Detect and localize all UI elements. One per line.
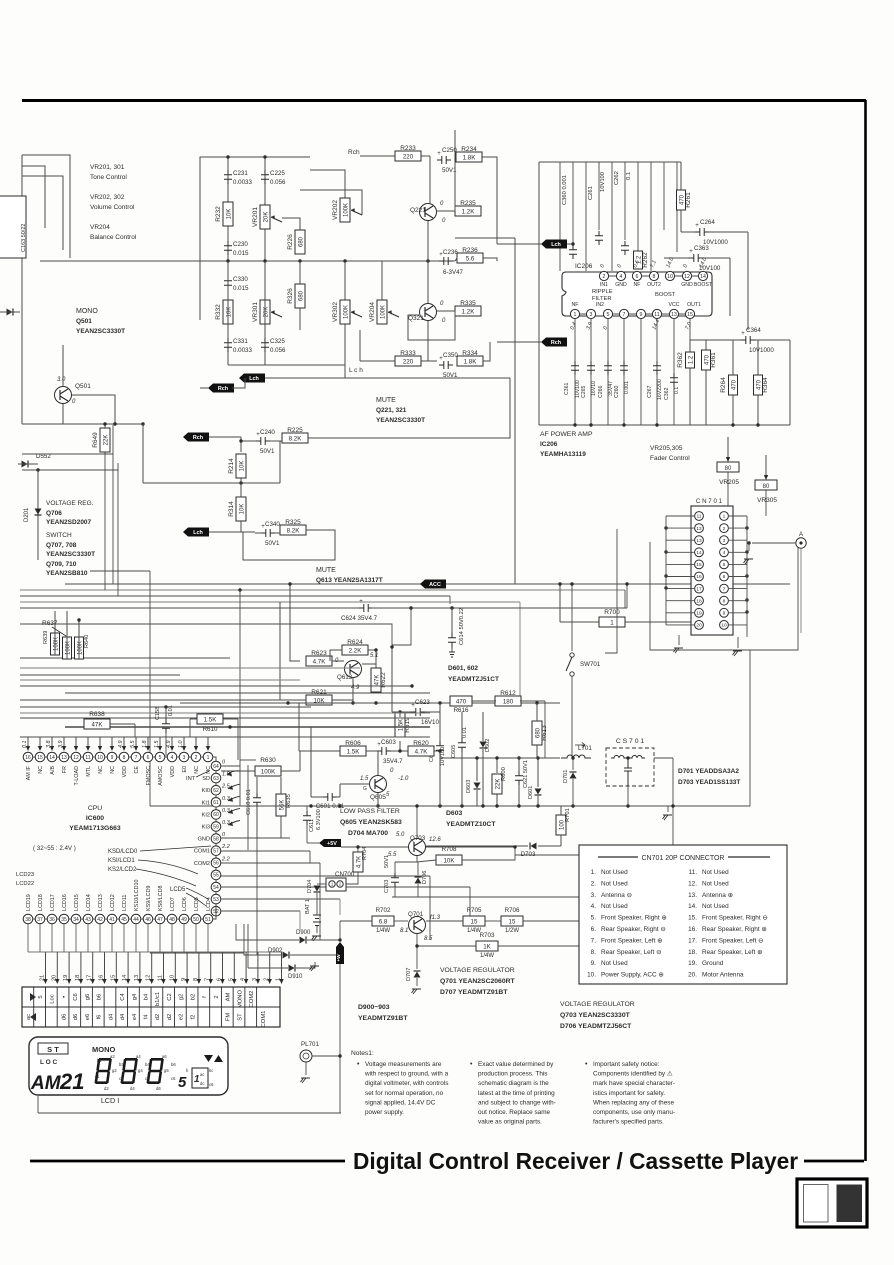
svg-text:2: 2 — [214, 995, 220, 998]
potentiometer VR201 20K — [252, 205, 282, 229]
CPU right pin chain — [194, 760, 231, 917]
wire R261 link — [680, 162, 682, 190]
svg-text:1/4W: 1/4W — [376, 928, 390, 934]
svg-text:62: 62 — [213, 788, 219, 794]
LCD1 display outline — [29, 1037, 228, 1095]
label VR205 305 Fader Control — [650, 445, 690, 462]
svg-text:4.7K: 4.7K — [415, 749, 429, 756]
svg-text:C N 7 0 1: C N 7 0 1 — [696, 498, 723, 505]
svg-text:220: 220 — [403, 359, 414, 366]
svg-text:42: 42 — [97, 917, 103, 923]
wire chain right stubs — [221, 760, 256, 850]
wire Q321 collector — [427, 321, 429, 361]
svg-text:KSD/LCD0: KSD/LCD0 — [108, 849, 138, 855]
wire COM1 link — [221, 850, 310, 852]
wire cn701 grounds — [674, 635, 743, 656]
svg-text:c6: c6 — [209, 1082, 214, 1087]
svg-text:54: 54 — [213, 885, 219, 891]
resistor R649 22K — [92, 428, 110, 452]
svg-text:180: 180 — [503, 699, 514, 706]
svg-text:IC600: IC600 — [86, 815, 104, 822]
svg-text:D704: D704 — [307, 880, 313, 893]
svg-text:43: 43 — [85, 917, 91, 923]
svg-text:11: 11 — [654, 312, 659, 318]
svg-text:4: 4 — [171, 755, 174, 761]
svg-text:e6: e6 — [85, 1014, 91, 1020]
wire main low bus y806 — [150, 805, 673, 807]
CN701 right pins 1-10 — [720, 512, 729, 630]
svg-text:21: 21 — [40, 975, 46, 981]
wire ACC bus — [65, 583, 790, 585]
svg-text:R334: R334 — [462, 350, 478, 357]
svg-text:VR202, 302: VR202, 302 — [90, 194, 125, 201]
capacitor C611 6.3V100 — [303, 806, 322, 843]
svg-text:LCD4: LCD4 — [206, 897, 212, 911]
svg-text:Rear Speaker, Left ⊖: Rear Speaker, Left ⊖ — [601, 949, 661, 956]
wire bus group mid2 — [20, 595, 450, 597]
label INT — [186, 771, 209, 782]
svg-text:D706: D706 — [422, 871, 428, 884]
inductor L701 — [561, 743, 592, 759]
svg-text:0.0033: 0.0033 — [233, 179, 252, 186]
resistor R236 5.6 — [457, 247, 483, 263]
svg-text:100K: 100K — [344, 305, 350, 319]
op-amp IC206 body — [562, 263, 712, 316]
wire C363 rail — [664, 257, 689, 259]
wire r264/r364 — [732, 340, 734, 375]
left edge connector box — [0, 196, 26, 258]
svg-text:OUT2: OUT2 — [647, 282, 661, 288]
transistor Q605 FET — [360, 768, 409, 801]
svg-text:Q701 YEAN2SC2060RT: Q701 YEAN2SC2060RT — [440, 978, 516, 985]
capacitor C604 10V100 — [429, 703, 446, 766]
svg-text:PL701: PL701 — [301, 1041, 319, 1048]
svg-text:60: 60 — [213, 812, 219, 818]
battery BAT1 — [305, 893, 321, 941]
svg-text:0.1: 0.1 — [22, 741, 28, 749]
svg-text:Front Speaker, Left ⊕: Front Speaker, Left ⊕ — [601, 937, 662, 944]
net tag +5V — [319, 839, 341, 847]
svg-text:SD: SD — [202, 776, 210, 782]
capacitor C240 — [256, 429, 275, 455]
svg-text:R613: R613 — [541, 725, 548, 741]
svg-text:C330: C330 — [233, 276, 248, 283]
svg-text:Q501: Q501 — [76, 318, 92, 325]
transistor Q703 — [388, 832, 441, 858]
note column 1 — [357, 1061, 449, 1116]
svg-text:Power Supply, ACC ⊕: Power Supply, ACC ⊕ — [601, 972, 664, 979]
svg-text:YEAM1713G663: YEAM1713G663 — [69, 825, 121, 832]
svg-text:e4: e4 — [132, 1013, 138, 1020]
svg-text:IN2: IN2 — [596, 302, 604, 308]
svg-text:D902: D902 — [268, 948, 283, 954]
svg-text:Rear Speaker, Right ⊖: Rear Speaker, Right ⊖ — [601, 926, 666, 933]
potentiometer VR302 100K — [332, 300, 362, 324]
svg-text:41: 41 — [109, 917, 115, 923]
svg-text:4: 4 — [723, 550, 726, 556]
svg-text:C360 0.001: C360 0.001 — [562, 175, 568, 205]
svg-text:g2: g2 — [179, 994, 185, 1000]
svg-text:36: 36 — [49, 917, 55, 923]
svg-text:1.8: 1.8 — [142, 741, 148, 749]
net tag Lch mid — [183, 528, 209, 537]
svg-text:AM: AM — [30, 1073, 62, 1094]
svg-text:470: 470 — [732, 379, 738, 390]
transistor Q221 — [410, 201, 446, 224]
svg-text:1: 1 — [574, 312, 577, 318]
svg-text:c6: c6 — [171, 1076, 176, 1081]
svg-text:Antenna ⊕: Antenna ⊕ — [702, 892, 733, 899]
svg-text:VCC: VCC — [669, 302, 680, 308]
wire r705 r706 — [426, 920, 463, 922]
svg-text:VR202: VR202 — [332, 200, 339, 220]
svg-text:1.5: 1.5 — [154, 740, 160, 748]
svg-text:10K: 10K — [313, 698, 325, 705]
svg-text:AF POWER AMP: AF POWER AMP — [540, 431, 593, 438]
svg-text:7: 7 — [623, 312, 626, 318]
svg-text:C158: C158 — [155, 707, 161, 720]
svg-text:D910: D910 — [288, 974, 303, 980]
svg-text:C364: C364 — [746, 327, 761, 334]
svg-text:15: 15 — [110, 975, 116, 981]
svg-text:KS8/LCD8: KS8/LCD8 — [158, 886, 164, 911]
svg-text:R638: R638 — [89, 711, 105, 718]
svg-text:+: + — [689, 249, 693, 255]
resistor R610 1.5K — [190, 714, 238, 760]
svg-text:b4: b4 — [144, 993, 150, 1000]
svg-text:MUTE: MUTE — [376, 397, 396, 404]
transistor Q613 — [335, 653, 378, 691]
svg-text:16: 16 — [25, 755, 31, 761]
svg-text:g2: g2 — [112, 1068, 117, 1073]
wire acc to sw701 — [571, 584, 573, 651]
wire r314 — [240, 478, 242, 497]
wire bottom tone rail — [228, 324, 345, 365]
wire R649 — [104, 424, 106, 428]
diode D902 — [257, 948, 342, 959]
svg-text:Front Speaker, Right ⊖: Front Speaker, Right ⊖ — [702, 915, 768, 922]
svg-text:D703 YEAD1SS133T: D703 YEAD1SS133T — [678, 779, 740, 786]
svg-text:C618 0.01: C618 0.01 — [246, 789, 252, 815]
svg-text:11.: 11. — [689, 869, 698, 876]
wire cn701 inner loop — [605, 529, 617, 653]
wire Q221 emitter — [437, 210, 455, 212]
svg-text:Components identified by ⚠: Components identified by ⚠ — [593, 1071, 673, 1078]
wire left lower bus — [22, 469, 118, 471]
svg-text:R612: R612 — [500, 690, 516, 697]
svg-text:FM: FM — [226, 1013, 232, 1022]
wire r703 — [417, 934, 476, 946]
resistor R232 10K — [215, 202, 233, 226]
svg-text:100K: 100K — [344, 203, 350, 217]
potentiometer VR305 80 — [755, 480, 777, 504]
svg-text:GND: GND — [681, 282, 693, 288]
svg-text:6-3V47: 6-3V47 — [443, 269, 464, 276]
svg-text:A: A — [799, 532, 803, 538]
svg-text:BAT 1: BAT 1 — [305, 899, 311, 914]
svg-text:SWITCH: SWITCH — [46, 532, 72, 539]
svg-text:g4: g4 — [138, 1068, 143, 1073]
net tag Lch — [239, 374, 265, 383]
resistor R622 47K — [371, 668, 387, 692]
svg-text:48: 48 — [169, 917, 175, 923]
svg-text:R332: R332 — [215, 304, 222, 320]
svg-text:LCD16: LCD16 — [62, 894, 68, 911]
resistor R264 470 — [720, 375, 738, 395]
connector CN701 body — [691, 498, 733, 635]
svg-text:C267: C267 — [647, 385, 653, 398]
svg-text:D704 MA700: D704 MA700 — [348, 830, 388, 837]
svg-text:3: 3 — [252, 978, 258, 981]
svg-text:R600: R600 — [501, 767, 507, 781]
svg-text:9: 9 — [723, 611, 726, 617]
svg-text:VDD: VDD — [122, 766, 128, 777]
svg-text:0.001: 0.001 — [624, 381, 630, 394]
resistor R226 680 — [287, 230, 305, 254]
diode D701 — [563, 756, 577, 806]
svg-text:Q703 YEAN2SC3330T: Q703 YEAN2SC3330T — [560, 1012, 631, 1019]
svg-text:21: 21 — [59, 1069, 84, 1094]
svg-text:CPU: CPU — [88, 805, 102, 812]
svg-text:C240: C240 — [260, 429, 275, 436]
svg-text:5: 5 — [723, 562, 726, 568]
svg-text:13: 13 — [671, 312, 677, 318]
wire pin52 link — [221, 910, 300, 912]
svg-text:12.6: 12.6 — [429, 837, 441, 843]
wire q703 emitter loop — [417, 856, 436, 862]
svg-text:When replacing any of thes: When replacing any of these — [593, 1099, 674, 1106]
resistor R214 10K — [228, 454, 246, 478]
net tag Rch AF — [541, 338, 567, 347]
svg-text:61: 61 — [213, 800, 219, 806]
svg-text:56K: 56K — [280, 800, 286, 811]
svg-text:8.: 8. — [591, 949, 597, 956]
svg-text:KS10/LCD10: KS10/LCD10 — [134, 880, 140, 911]
svg-text:1.0: 1.0 — [178, 741, 184, 749]
svg-text:14.: 14. — [688, 903, 697, 910]
capacitor C601 0.01 — [311, 727, 345, 810]
svg-text:set for normal operation,: set for normal operation, no — [365, 1090, 444, 1097]
svg-text:20.: 20. — [688, 972, 697, 979]
svg-text:6: 6 — [636, 274, 639, 280]
svg-text:R621: R621 — [311, 689, 327, 696]
svg-text:4.9: 4.9 — [118, 741, 124, 749]
svg-text:17.: 17. — [688, 937, 697, 944]
svg-text:R326: R326 — [287, 288, 294, 304]
svg-text:CN700: CN700 — [335, 871, 355, 878]
resistor R235 1.2K — [455, 200, 481, 216]
svg-text:15.: 15. — [688, 915, 697, 922]
wire bottom rail — [38, 1112, 341, 1114]
net tag ACC — [420, 580, 446, 589]
svg-text:10: 10 — [721, 623, 727, 629]
svg-text:0.1: 0.1 — [674, 387, 680, 394]
svg-text:COM2: COM2 — [194, 861, 210, 867]
resistor R637 group 100K x3 — [42, 611, 90, 659]
wire q613 emitter down — [352, 678, 354, 703]
svg-text:LCD13: LCD13 — [98, 894, 104, 911]
svg-text:1/2W: 1/2W — [505, 928, 519, 934]
wire lch into IC — [497, 243, 541, 245]
wire left step corner — [90, 570, 150, 572]
capacitor C623 16V10 — [390, 645, 440, 726]
svg-text:C325: C325 — [270, 338, 285, 345]
wire bus group mid4 — [20, 607, 320, 609]
svg-text:8: 8 — [653, 274, 656, 280]
svg-text:35: 35 — [61, 917, 67, 923]
svg-text:R214: R214 — [228, 458, 235, 474]
svg-text:Q605 YEAN2SK583: Q605 YEAN2SK583 — [340, 819, 402, 826]
label CPU IC600 — [69, 805, 121, 832]
svg-text:D603: D603 — [466, 780, 472, 793]
wire rail x265 — [264, 157, 266, 352]
diode D601 small — [528, 756, 542, 806]
svg-text:Q221: Q221 — [410, 207, 426, 214]
svg-text:Q701: Q701 — [408, 911, 424, 918]
resistor R621 10K — [306, 689, 332, 705]
svg-text:LCD5: LCD5 — [170, 887, 186, 893]
svg-text:YEADMTZ91BT: YEADMTZ91BT — [358, 1015, 408, 1022]
CPU key-in arrows KI0-KI3 — [227, 771, 240, 826]
wire COM2 link — [221, 862, 320, 864]
svg-text:+5V: +5V — [327, 841, 337, 847]
svg-text:MONO: MONO — [237, 989, 243, 1008]
svg-text:b2: b2 — [119, 1062, 124, 1067]
svg-text:Rch: Rch — [551, 340, 561, 346]
net tag Lch AF — [541, 240, 567, 249]
wire C264 rail — [681, 231, 695, 233]
svg-text:C261: C261 — [588, 186, 594, 200]
svg-text:20: 20 — [696, 623, 702, 629]
svg-text:FMOSC: FMOSC — [146, 766, 152, 786]
svg-text:+: + — [695, 223, 699, 229]
transistor Q321 — [408, 301, 446, 324]
svg-text:15: 15 — [509, 919, 516, 926]
svg-text:R233: R233 — [400, 145, 416, 152]
svg-text:LCD19: LCD19 — [26, 894, 32, 911]
label left LCD nets — [16, 872, 34, 887]
svg-text:3: 3 — [183, 755, 186, 761]
CN701 table title — [598, 855, 770, 862]
svg-text:g6: g6 — [85, 994, 91, 1000]
svg-text:R264: R264 — [720, 377, 727, 393]
svg-text:64: 64 — [213, 764, 219, 770]
svg-text:0.01: 0.01 — [168, 705, 174, 716]
resistor R612 180 — [495, 690, 521, 706]
svg-text:C265: C265 — [581, 385, 587, 398]
wire q703 row right — [426, 845, 500, 847]
svg-text:4.7K: 4.7K — [313, 659, 327, 666]
svg-text:11: 11 — [85, 755, 90, 761]
wire r236 stub — [455, 258, 457, 261]
svg-text:13: 13 — [61, 755, 67, 761]
svg-text:f1.3: f1.3 — [430, 915, 441, 921]
svg-text:Lch: Lch — [193, 530, 203, 536]
wire +w down — [339, 964, 341, 1113]
CPU bottom pin row — [23, 914, 213, 924]
svg-text:18: 18 — [696, 598, 702, 604]
wire bottom link lines — [28, 924, 281, 952]
svg-text:R703: R703 — [480, 932, 495, 939]
svg-text:R616: R616 — [454, 707, 469, 714]
svg-text:680: 680 — [299, 236, 305, 247]
svg-text:d6: d6 — [61, 1014, 67, 1020]
capacitor C618 0.01 — [246, 789, 261, 815]
svg-text:R700: R700 — [604, 609, 620, 616]
svg-text:14: 14 — [49, 755, 55, 761]
capacitor C364 10V1000 — [741, 327, 774, 354]
wire bottom rail left riser — [37, 1096, 39, 1113]
svg-text:8: 8 — [193, 978, 199, 981]
diode D704 — [307, 880, 326, 893]
wire c340 link — [255, 532, 261, 534]
svg-text:6.3V100: 6.3V100 — [316, 809, 322, 830]
filter CS701 dashed box — [606, 738, 654, 786]
svg-text:COM1: COM1 — [194, 849, 210, 855]
svg-text:5: 5 — [178, 1074, 187, 1091]
svg-text:Not Used: Not Used — [702, 869, 729, 876]
svg-text:value as original parts.: value as original parts. — [478, 1119, 542, 1126]
wire lch drop — [344, 365, 346, 378]
capacitor C230 — [224, 241, 249, 257]
svg-text:LCD12: LCD12 — [110, 894, 116, 911]
CN701 table rows — [587, 869, 768, 979]
net tag Rch mid — [183, 433, 209, 442]
svg-text:50V1: 50V1 — [384, 855, 390, 868]
capacitor C265 — [581, 361, 597, 398]
svg-text:Lch: Lch — [249, 376, 259, 382]
svg-text:1.5K: 1.5K — [204, 717, 218, 724]
label VOLTAGE REGULATOR Q701 — [440, 967, 516, 996]
svg-text:1.5: 1.5 — [360, 776, 369, 782]
svg-text:0.015: 0.015 — [233, 250, 249, 257]
wire Q321 emitter — [437, 310, 455, 312]
net tag +W vertical — [336, 942, 344, 964]
svg-text:R236: R236 — [462, 247, 478, 254]
svg-text:37: 37 — [37, 917, 43, 923]
svg-text:LCD14: LCD14 — [86, 894, 92, 911]
svg-text:Not Used: Not Used — [702, 880, 729, 887]
svg-text:35V4.7: 35V4.7 — [383, 758, 403, 765]
label D601 602 — [448, 665, 499, 683]
diode D553 — [7, 309, 14, 316]
label MONO Q501 — [76, 308, 125, 335]
label LOW PASS FILTER — [340, 808, 402, 826]
svg-text:R649: R649 — [92, 432, 99, 448]
svg-text:C605: C605 — [451, 745, 457, 758]
svg-text:A/B: A/B — [50, 766, 56, 775]
svg-text:49: 49 — [181, 917, 187, 923]
diode D552 — [18, 453, 51, 468]
title rule right — [804, 1160, 864, 1163]
svg-text:Not Used: Not Used — [702, 903, 729, 910]
wire bus group mid1 — [20, 589, 625, 591]
svg-text:Volume Control: Volume Control — [90, 204, 135, 211]
switch SW701 — [566, 653, 601, 676]
wire r361 link — [689, 340, 691, 352]
svg-text:Front Speaker, Right ⊕: Front Speaker, Right ⊕ — [601, 915, 667, 922]
wire left feed 3 — [22, 176, 63, 250]
svg-text:d2: d2 — [167, 1014, 173, 1020]
wire mute bottom row — [421, 360, 437, 362]
wire r612 link — [472, 700, 496, 702]
svg-text:Ground: Ground — [702, 960, 724, 967]
svg-text:16: 16 — [99, 975, 105, 981]
capacitor C158 — [155, 705, 174, 756]
svg-text:VR305: VR305 — [757, 497, 777, 504]
svg-text:D707: D707 — [406, 968, 412, 981]
svg-text:VOLTAGE REGULATOR: VOLTAGE REGULATOR — [440, 967, 515, 974]
